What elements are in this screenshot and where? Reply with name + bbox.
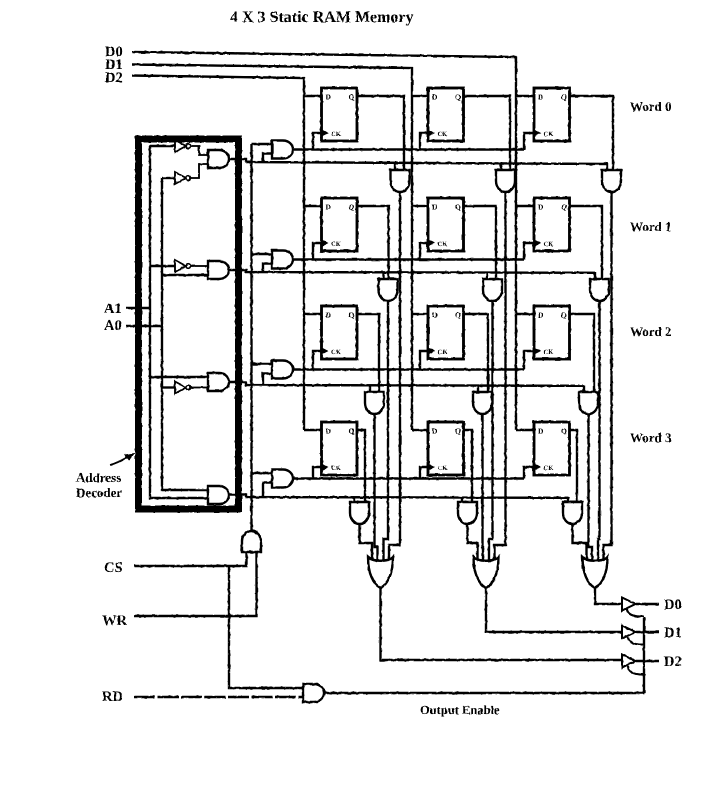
wire clock riser row 1 xyxy=(313,243,322,260)
wire D2 stub to column 1 D pin xyxy=(304,205,322,207)
wire word 1 stub to read gate xyxy=(382,272,384,279)
wire read gate R00 output to OR gate xyxy=(389,192,400,564)
wire word 1 branch to write gate xyxy=(263,264,272,273)
AND gate R20 (read row 2 col 0) xyxy=(365,392,384,414)
svg-text:A0: A0 xyxy=(104,318,122,334)
flip-flop FF20 (word 2 bit 2) xyxy=(322,306,358,359)
wire clock riser row 3 xyxy=(420,467,428,479)
inverter I3 xyxy=(175,260,191,272)
AND gate U1 (decoder) xyxy=(208,150,229,168)
wire D1 output line xyxy=(636,631,659,633)
wire word 3 stub to read gate xyxy=(353,497,355,502)
svg-text:Word 2: Word 2 xyxy=(630,324,672,339)
wire write enable stub row 2 xyxy=(252,363,273,365)
wire output enable line xyxy=(324,692,644,694)
wire D2 stub to column 1 D pin xyxy=(304,95,322,97)
wire read gate R22 output to OR gate xyxy=(589,414,593,564)
wire D2 stub to column 1 D pin xyxy=(304,429,322,431)
AND gate R10 (read row 1 col 0) xyxy=(379,279,398,301)
wire word 0 stub to read gate xyxy=(606,162,608,170)
wire decoder output word 0 xyxy=(230,159,607,164)
wire clock riser row 2 xyxy=(313,351,322,370)
svg-text:D2: D2 xyxy=(105,70,123,86)
wire D0 data line xyxy=(132,52,516,430)
wire D0 output line xyxy=(636,603,659,605)
wire D1 data line xyxy=(132,65,412,431)
wire clock riser row 3 xyxy=(524,467,534,479)
wire word 2 stub to read gate xyxy=(583,385,585,392)
wire OR O2 output to D0 buffer xyxy=(595,588,621,604)
svg-text:Address: Address xyxy=(76,470,121,485)
svg-text:Word 0: Word 0 xyxy=(630,99,672,114)
wire clock riser row 3 xyxy=(313,467,322,479)
wire read gate R11 output to OR gate xyxy=(489,301,493,564)
svg-text:Decoder: Decoder xyxy=(76,485,122,500)
wire word 0 branch to write gate xyxy=(263,154,272,163)
flip-flop FF22 (word 2 bit 0) xyxy=(534,306,570,359)
wire A0 stub to inverter I4 xyxy=(162,386,175,388)
wire word 2 stub to read gate xyxy=(477,385,479,392)
wire A0 bus vertical xyxy=(162,178,208,490)
wire clock line row 3 xyxy=(293,477,524,479)
wire word 0 stub to read gate xyxy=(500,162,502,170)
AND gate R30 (read row 3 col 0) xyxy=(350,502,369,524)
wire A0 stub to AND gate U2 xyxy=(162,274,208,276)
wire D0 stub to column 3 D pin xyxy=(516,205,534,207)
flip-flop FF32 (word 3 bit 0) xyxy=(534,422,570,475)
wire Q output FF21 to read gate xyxy=(464,314,489,392)
svg-text:RD: RD xyxy=(102,689,123,705)
wire read gate R20 output to OR gate xyxy=(375,414,378,564)
wire read gate R02 output to OR gate xyxy=(604,192,612,564)
wire enable hook buffer B0 xyxy=(627,609,644,617)
wire clock line row 0 xyxy=(293,148,524,150)
arrow to decoder box xyxy=(110,455,131,465)
wire A1 stub to AND gate U3 xyxy=(150,376,208,378)
wire D1 stub to column 2 D pin xyxy=(412,95,428,97)
AND gate R12 (read row 1 col 2) xyxy=(590,279,609,301)
wire Q output FF22 to read gate xyxy=(570,314,595,392)
AND gate R31 (read row 3 col 1) xyxy=(458,502,477,524)
wire word 3 stub to read gate xyxy=(461,497,463,502)
svg-text:4 X 3 Static RAM Memory: 4 X 3 Static RAM Memory xyxy=(230,9,414,26)
AND gate U6 (output enable) xyxy=(303,684,324,702)
svg-text:Word 1: Word 1 xyxy=(630,219,672,234)
wire clock riser row 0 xyxy=(420,133,428,150)
inverter I4 xyxy=(175,382,191,394)
wire read gate R31 output to OR gate xyxy=(468,524,478,564)
wire word 1 stub to read gate xyxy=(486,272,488,279)
svg-text:CS: CS xyxy=(104,560,123,576)
wire read gate R21 output to OR gate xyxy=(481,414,484,564)
wire D2 data line xyxy=(132,76,304,431)
tri-state buffer B1 (D1 output) xyxy=(622,626,636,639)
wire OR O0 output to D2 buffer xyxy=(381,588,622,660)
AND gate R00 (read row 0 col 0) xyxy=(391,170,410,192)
wire write enable vertical xyxy=(250,144,252,531)
wire word 0 stub to read gate xyxy=(394,162,396,170)
wire Q output FF31 to read gate xyxy=(464,430,473,502)
wire Q output FF11 to read gate xyxy=(464,206,497,279)
svg-text:A1: A1 xyxy=(104,301,122,317)
wire Q output FF20 to read gate xyxy=(357,314,379,392)
wire inverter I4 output xyxy=(191,387,208,389)
flip-flop FF01 (word 0 bit 1) xyxy=(428,88,464,141)
inverter I2 xyxy=(175,172,191,184)
wire CS input line xyxy=(134,552,247,566)
wire write enable stub row 1 xyxy=(252,253,273,255)
wire read gate R32 output to OR gate xyxy=(573,524,587,564)
flip-flop FF30 (word 3 bit 2) xyxy=(322,422,358,475)
AND gate R02 (read row 0 col 2) xyxy=(602,170,621,192)
wire Q output FF32 to read gate xyxy=(570,430,578,502)
wire A0 input line xyxy=(126,325,162,327)
AND gate U2 (decoder) xyxy=(208,261,229,279)
wire output enable vertical xyxy=(643,617,645,693)
wire read gate R12 output to OR gate xyxy=(598,301,600,564)
wire word 1 stub to read gate xyxy=(594,272,596,279)
tri-state buffer B0 (D0 output) xyxy=(622,598,636,611)
inverter I1 xyxy=(175,140,191,152)
flip-flop FF31 (word 3 bit 1) xyxy=(428,422,464,475)
wire enable hook buffer B2 xyxy=(628,666,644,675)
AND gate W3 (write row 3) xyxy=(272,470,293,488)
wire Q output FF02 to read gate xyxy=(570,96,614,170)
wire inverter I2 output xyxy=(191,164,208,178)
wire OR O1 output to D1 buffer xyxy=(486,588,621,632)
wire clock line row 1 xyxy=(293,258,524,260)
AND gate W0 (write row 0) xyxy=(272,141,293,159)
wire A0 stub to inverter I2 xyxy=(162,177,175,179)
wire word 2 stub to read gate xyxy=(369,385,371,392)
wire read gate R01 output to OR gate xyxy=(495,192,506,564)
flip-flop FF11 (word 1 bit 1) xyxy=(428,198,464,251)
AND gate U3 (decoder) xyxy=(208,373,229,391)
wire Q output FF01 to read gate xyxy=(464,96,511,170)
wire D1 stub to column 2 D pin xyxy=(412,313,428,315)
wire A1 stub to inverter I1 xyxy=(150,145,175,147)
flip-flop FF21 (word 2 bit 1) xyxy=(428,306,464,359)
wire clock riser row 0 xyxy=(524,133,534,150)
wire WR input line xyxy=(134,552,257,616)
flip-flop FF02 (word 0 bit 0) xyxy=(534,88,570,141)
AND gate U4 (decoder) xyxy=(208,486,229,504)
wire clock riser row 2 xyxy=(420,351,428,370)
wire D0 stub to column 3 D pin xyxy=(516,429,534,431)
wire D0 stub to column 3 D pin xyxy=(516,95,534,97)
wire clock line row 2 xyxy=(293,368,524,370)
wire write enable stub row 3 xyxy=(252,472,273,474)
wire RD input line xyxy=(134,696,303,698)
AND gate R11 (read row 1 col 1) xyxy=(483,279,502,301)
wire D2 output line xyxy=(636,660,659,662)
wire enable hook buffer B1 xyxy=(628,637,644,645)
wire D1 stub to column 2 D pin xyxy=(412,429,428,431)
AND gate R21 (read row 2 col 1) xyxy=(473,392,492,414)
wire decoder output word 2 xyxy=(230,382,584,386)
wire Q output FF12 to read gate xyxy=(570,206,603,279)
flip-flop FF10 (word 1 bit 2) xyxy=(322,198,358,251)
tri-state buffer B2 (D2 output) xyxy=(622,655,636,668)
AND gate W2 (write row 2) xyxy=(272,361,293,379)
wire word 2 branch to write gate xyxy=(263,374,272,386)
wire clock riser row 0 xyxy=(313,133,322,150)
svg-text:D2: D2 xyxy=(664,654,682,670)
wire A1 bus vertical xyxy=(150,145,208,498)
wire decoder output word 3 xyxy=(230,495,568,498)
svg-text:Word 3: Word 3 xyxy=(630,430,672,445)
AND gate R32 (read row 3 col 2) xyxy=(563,502,582,524)
OR gate O2 (bit column 2) xyxy=(583,557,608,588)
OR gate O0 (bit column 0) xyxy=(368,557,393,588)
wire read gate R10 output to OR gate xyxy=(384,301,389,564)
wire Q output FF10 to read gate xyxy=(357,206,389,279)
svg-text:WR: WR xyxy=(102,613,128,629)
address decoder box xyxy=(139,139,239,509)
flip-flop FF00 (word 0 bit 2) xyxy=(322,88,358,141)
wire D1 stub to column 2 D pin xyxy=(412,205,428,207)
flip-flop FF12 (word 1 bit 0) xyxy=(534,198,570,251)
wire CS branch to read enable gate xyxy=(229,566,303,688)
wire clock riser row 1 xyxy=(524,243,534,260)
wire D2 stub to column 1 D pin xyxy=(304,313,322,315)
svg-text:D0: D0 xyxy=(664,597,682,613)
wire clock riser row 1 xyxy=(420,243,428,260)
OR gate O1 (bit column 1) xyxy=(474,557,499,588)
wire Q output FF00 to read gate xyxy=(357,96,404,170)
wire inverter I3 output xyxy=(191,265,208,267)
wire read gate R30 output to OR gate xyxy=(360,524,373,564)
svg-text:D1: D1 xyxy=(664,625,682,641)
wire A1 input line xyxy=(126,307,150,309)
wire word 3 branch to write gate xyxy=(263,483,272,498)
wire write enable stub row 0 xyxy=(252,143,273,145)
wire decoder output word 1 xyxy=(230,270,595,273)
wire inverter I1 output xyxy=(191,146,208,155)
AND gate W1 (write row 1) xyxy=(272,251,293,269)
AND gate R01 (read row 0 col 1) xyxy=(496,170,515,192)
wire Q output FF30 to read gate xyxy=(357,430,365,502)
svg-text:Output Enable: Output Enable xyxy=(420,703,500,717)
wire clock riser row 2 xyxy=(524,351,534,370)
AND gate R22 (read row 2 col 2) xyxy=(579,392,598,414)
wire D0 stub to column 3 D pin xyxy=(516,313,534,315)
AND gate U5 (CS AND WR write enable) xyxy=(242,531,261,552)
wire word 3 stub to read gate xyxy=(567,497,569,502)
wire A1 stub to inverter I3 xyxy=(150,265,175,267)
